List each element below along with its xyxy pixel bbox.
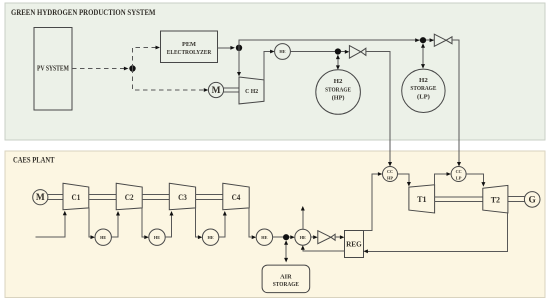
svg-text:(LP): (LP): [417, 93, 430, 100]
shaft T1 to T2 (double line): [435, 197, 483, 201]
wire: double-headed arrow node C to H2 storage HP: [336, 55, 340, 70]
heat exchanger HE4 (intercooler 3): [202, 229, 218, 245]
wire: valve V2 right then down to CC-LP: [452, 40, 461, 166]
svg-text:STORAGE: STORAGE: [325, 86, 351, 93]
svg-text:HP: HP: [387, 176, 393, 181]
heat exchanger HE1 (top): [275, 44, 291, 60]
svg-text:C H2: C H2: [245, 89, 258, 95]
svg-text:T1: T1: [417, 194, 426, 204]
combustion chamber CC HP: [383, 167, 398, 182]
svg-text:H2: H2: [419, 77, 428, 84]
H2 storage LP tank: [402, 69, 445, 112]
svg-text:C1: C1: [72, 192, 81, 202]
wire: T2 exhaust down and left to REG: [363, 213, 507, 253]
heat exchanger HE5 (aftercooler): [256, 229, 272, 245]
svg-text:M: M: [36, 193, 45, 203]
wire: REG outlet up to combustion chamber CC-HP: [363, 172, 382, 230]
svg-text:T2: T2: [491, 195, 501, 205]
svg-text:M: M: [212, 86, 221, 96]
svg-text:CAES PLANT: CAES PLANT: [13, 155, 55, 165]
wire: CC LP to turbine T2: [466, 174, 485, 187]
wire: node B up and right along top line to LP node: [239, 40, 434, 48]
section box: green hydrogen production system: [5, 3, 545, 140]
compressor C H2: [239, 77, 264, 104]
svg-text:HE: HE: [208, 235, 214, 240]
svg-text:CC: CC: [387, 169, 393, 174]
svg-text:AIR: AIR: [280, 273, 292, 280]
shaft M1 to C-H2 (double line): [224, 88, 239, 92]
svg-text:LP: LP: [456, 176, 462, 181]
heat exchanger HE3 (intercooler 2): [149, 229, 165, 245]
wire: double-headed arrow node D to H2 storage LP: [421, 43, 425, 68]
svg-text:HE: HE: [300, 235, 306, 240]
wire: node A down then to motor M1 (dashed): [133, 69, 209, 92]
valve V3 (throttle before REG): [318, 231, 335, 244]
compressor C1: [63, 183, 89, 209]
valve V1 (HP line): [349, 46, 366, 59]
wire: HE2 to compressor C2 inlet: [111, 211, 120, 237]
wire: HE4 to compressor C4 inlet: [219, 211, 227, 237]
node B (junction dot): [236, 45, 242, 51]
wire: CC HP to turbine T1: [398, 174, 411, 187]
svg-text:HE: HE: [154, 235, 160, 240]
wire: HE1 to node C: [290, 51, 338, 53]
combustion chamber CC LP: [451, 167, 466, 182]
svg-text:C2: C2: [125, 192, 134, 202]
wire: C2 outlet down to HE3: [142, 207, 149, 239]
wire: double-headed arrow node E to air storage: [284, 240, 288, 262]
wire: arrow into node D on top line: [415, 38, 420, 42]
valve V2 (LP line): [434, 34, 452, 46]
wire: arrow into LP valve: [430, 38, 435, 42]
node C (junction dot above HP storage): [335, 48, 341, 54]
svg-text:PV SYSTEM: PV SYSTEM: [37, 65, 69, 73]
shaft C2 to C3 (double line): [142, 195, 169, 200]
svg-text:C3: C3: [178, 192, 187, 202]
wire: T1 exhaust up to CC LP: [435, 172, 451, 185]
wire: air inlet into compressor C1: [35, 211, 67, 237]
wire: C4 outlet down to HE5: [249, 207, 256, 239]
node A (junction dot): [129, 65, 135, 71]
turbine T1: [409, 185, 435, 213]
node E (junction dot at air storage tee): [283, 234, 289, 240]
shaft C3 to C4 (double line): [196, 195, 223, 200]
wire: valve V3 to REG: [335, 235, 344, 239]
wire: node A up then to PEM electrolyzer (dashed): [133, 46, 161, 69]
wire: node C to valve V1 with arrow: [341, 50, 349, 54]
PEM electrolyzer block: [160, 31, 217, 62]
motor M1: [208, 82, 223, 97]
air storage tank: [262, 265, 310, 293]
svg-text:ELECTROLYZER: ELECTROLYZER: [167, 49, 212, 56]
node D (junction dot above LP storage): [420, 37, 426, 43]
svg-text:HE: HE: [279, 49, 285, 54]
svg-text:G: G: [529, 196, 537, 206]
svg-text:STORAGE: STORAGE: [410, 85, 436, 92]
wire: valve V1 right then down to CC-HP: [366, 52, 392, 167]
svg-text:(HP): (HP): [332, 95, 345, 102]
shaft C1 to C2 (double line): [89, 195, 116, 200]
wire: HE3 to compressor C3 inlet: [165, 211, 173, 237]
wire: HE5 to node E: [273, 236, 286, 238]
svg-text:REG: REG: [346, 241, 362, 249]
svg-text:C4: C4: [232, 192, 241, 202]
H2 storage HP tank: [316, 70, 361, 115]
turbine T2: [483, 185, 508, 213]
wire: C1 outlet down to HE2: [89, 207, 95, 239]
wire: node E to HE6 with arrow: [289, 235, 295, 239]
heat exchanger HE6 (recuperator cooler): [295, 229, 311, 245]
shaft T2 to generator G (double line): [508, 197, 525, 202]
generator G: [524, 192, 540, 208]
wire: PEM electrolyzer output to node B: [218, 46, 235, 50]
wire: C H2 outlet up to heat exchanger HE1: [264, 50, 275, 80]
regenerator REG: [345, 231, 364, 258]
svg-text:STORAGE: STORAGE: [273, 281, 300, 288]
wire: HE6 exhaust up (vent): [301, 206, 305, 229]
heat exchanger HE2 (intercooler 1): [95, 229, 111, 245]
wire: C3 outlet down to HE4: [196, 207, 203, 239]
section box: CAES plant: [5, 151, 545, 298]
PV system block: [34, 28, 72, 111]
wire: REG to HE6 bottom: [301, 245, 345, 251]
shaft M2 to C1 (double line): [48, 195, 63, 200]
svg-text:GREEN HYDROGEN PRODUCTION SYST: GREEN HYDROGEN PRODUCTION SYSTEM: [11, 7, 156, 17]
svg-text:PEM: PEM: [182, 41, 196, 48]
svg-text:H2: H2: [334, 78, 343, 85]
compressor C2: [116, 183, 142, 209]
svg-text:HE: HE: [100, 235, 106, 240]
compressor C3: [169, 183, 195, 209]
motor M2: [33, 190, 48, 205]
wire: HE6 to valve V3: [311, 235, 318, 239]
svg-text:CC: CC: [456, 169, 462, 174]
svg-text:HE: HE: [261, 235, 267, 240]
compressor C4: [223, 183, 249, 209]
wire: node B down into compressor C-H2: [237, 48, 241, 77]
wire: PV output dashed to node A: [72, 67, 128, 71]
